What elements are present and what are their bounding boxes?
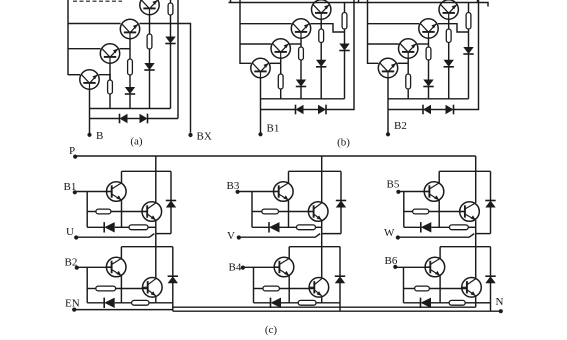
transistor driver (B2 lower leg U) — [106, 257, 126, 277]
svg-text:(c): (c) — [265, 324, 278, 336]
wire — [439, 247, 441, 259]
wire — [439, 170, 490, 172]
wire — [148, 118, 179, 120]
svg-text:B6: B6 — [385, 255, 398, 267]
resistor (B2) R4 — [466, 13, 471, 30]
wire — [475, 171, 477, 203]
transistor Q4 (a) — [140, 0, 159, 15]
wire — [429, 211, 465, 213]
wire — [340, 171, 342, 200]
wire — [155, 171, 157, 203]
transistor output (B4 lower leg V) — [309, 278, 329, 298]
resistor (a) R4 — [168, 3, 173, 15]
terminal B1 — [258, 132, 262, 136]
wire — [431, 109, 446, 111]
svg-text:B: B — [96, 130, 103, 142]
wire — [155, 296, 157, 303]
wire — [128, 118, 140, 120]
transistor Q3 (B2) — [419, 19, 438, 38]
transistor Q1 (a) — [80, 70, 99, 89]
top remnant wire — [73, 0, 122, 2]
wire — [368, 0, 379, 63]
wire — [68, 74, 80, 76]
wire — [121, 171, 123, 183]
diode (B1) D4 — [296, 105, 304, 115]
wire — [398, 234, 474, 238]
wire — [170, 207, 172, 234]
wire — [122, 170, 172, 172]
wire — [476, 302, 491, 304]
wire — [326, 0, 354, 110]
wire — [340, 207, 342, 234]
wire — [439, 276, 441, 303]
wire — [87, 288, 96, 290]
wire — [156, 302, 173, 304]
wire — [320, 43, 322, 61]
terminal W — [396, 235, 400, 239]
wire — [431, 302, 449, 304]
svg-text:U: U — [66, 226, 74, 238]
svg-text:B2: B2 — [65, 257, 78, 269]
wire — [239, 234, 320, 238]
transistor Q3 (B1) — [291, 19, 310, 38]
node rail EN-N upper — [173, 306, 476, 308]
wire — [129, 94, 131, 109]
terminal B2 — [386, 132, 390, 136]
wire — [476, 233, 491, 235]
wire — [172, 283, 174, 312]
wire — [281, 302, 298, 304]
wire — [120, 48, 131, 50]
wire — [149, 15, 151, 34]
wire — [149, 49, 151, 63]
wire — [465, 302, 476, 304]
darlington block (b) collector rail — [229, 3, 489, 7]
svg-text:(a): (a) — [130, 136, 143, 148]
terminal BX — [188, 133, 192, 137]
wire — [67, 0, 69, 75]
wire — [170, 171, 172, 200]
resistor (B1 upper leg U) base — [96, 209, 111, 214]
terminal V — [237, 235, 241, 239]
svg-text:(b): (b) — [337, 137, 350, 149]
wire — [77, 266, 112, 268]
wire — [468, 29, 470, 48]
wire — [475, 303, 477, 307]
wire — [251, 192, 253, 228]
terminal P — [73, 155, 77, 159]
wire — [116, 288, 148, 290]
diode (a) D4 — [120, 114, 128, 124]
wire — [428, 87, 430, 99]
wire — [90, 108, 171, 110]
wire — [149, 302, 156, 304]
wire — [155, 156, 157, 171]
wire — [121, 200, 123, 227]
wire — [87, 226, 104, 228]
wire — [358, 0, 360, 3]
diode (a) D1 — [125, 87, 135, 94]
terminal B3 — [236, 190, 240, 194]
wire — [149, 70, 151, 109]
wire — [322, 302, 340, 304]
terminal B4 — [241, 266, 245, 270]
terminal B5 — [396, 190, 400, 194]
diode (a) D2 — [144, 63, 154, 70]
wire — [288, 200, 290, 227]
diode (B2) D1 — [423, 80, 433, 87]
resistor (B3 upper leg V) emitter — [297, 225, 316, 230]
diode (B4 lower leg V) freewheel — [335, 276, 345, 283]
wire — [121, 246, 172, 248]
wire — [428, 38, 430, 47]
wire — [388, 109, 423, 111]
wire — [115, 226, 129, 228]
wire — [403, 267, 405, 303]
resistor (B5 upper leg W) emitter — [449, 225, 468, 230]
wire — [253, 267, 255, 303]
resistor (B1) R4 — [342, 13, 347, 30]
wire — [68, 48, 101, 50]
wire — [111, 211, 147, 213]
resistor (B4 lower leg V) emitter — [298, 300, 316, 305]
transistor output (B3 upper leg V) — [308, 202, 328, 222]
svg-text:B2: B2 — [394, 120, 407, 132]
wire — [90, 118, 120, 120]
wire — [75, 191, 112, 193]
transistor Q2 (B1) — [271, 39, 290, 58]
diode (B2) D3 — [463, 47, 473, 54]
transistor output (B1 upper leg U) — [142, 202, 162, 222]
wire — [320, 19, 322, 29]
resistor (B2 lower leg U) emitter — [132, 300, 149, 305]
wire — [322, 233, 341, 235]
wire — [321, 220, 323, 234]
wire — [475, 156, 477, 171]
svg-text:W: W — [384, 227, 395, 239]
svg-text:P: P — [69, 145, 75, 157]
wire — [86, 192, 88, 228]
svg-text:N: N — [496, 296, 504, 308]
wire — [109, 63, 111, 80]
wire — [300, 38, 302, 47]
diode (B1) D1 — [296, 80, 306, 87]
wire — [87, 302, 104, 304]
wire — [120, 276, 122, 303]
wire — [304, 109, 319, 111]
wire — [300, 60, 302, 80]
wire — [448, 43, 450, 61]
wire — [339, 283, 341, 312]
wire — [129, 39, 131, 59]
diode (B2) D4 — [423, 105, 431, 115]
resistor (a) R2 — [128, 59, 133, 75]
wire — [288, 276, 290, 303]
wire — [120, 247, 122, 259]
wire — [344, 51, 346, 99]
terminal EN — [74, 309, 173, 311]
transistor Q4 (B1) — [312, 0, 331, 19]
diode (B5 upper leg W) base-emitter — [421, 222, 432, 232]
wire — [289, 170, 342, 172]
resistor (a) R1 — [108, 80, 113, 94]
wire — [177, 0, 179, 119]
wire — [407, 89, 409, 99]
wire — [129, 75, 131, 87]
wire — [404, 211, 413, 213]
svg-text:V: V — [227, 230, 235, 242]
transistor output (B5 upper leg W) — [460, 202, 480, 222]
diode (a) D5 — [140, 114, 148, 124]
wire — [448, 67, 450, 99]
wire — [279, 288, 314, 290]
resistor (B6 lower leg W) emitter — [449, 300, 465, 305]
transistor Q2 (a) — [100, 44, 119, 63]
diode (B5 upper leg W) freewheel — [485, 201, 495, 208]
wire — [170, 15, 172, 37]
wire — [339, 247, 341, 277]
wire — [404, 226, 421, 228]
transistor driver (B1 upper leg U) — [107, 182, 127, 202]
wire — [172, 247, 174, 277]
wire — [321, 247, 323, 279]
wire — [404, 288, 415, 290]
wire — [438, 171, 440, 183]
diode (B6 lower leg W) freewheel — [485, 276, 495, 283]
wire — [252, 211, 262, 213]
wire — [468, 54, 470, 99]
wire — [395, 266, 430, 268]
diode (B6 lower leg W) base-emitter — [421, 298, 432, 308]
resistor (B3 upper leg V) base — [262, 209, 279, 214]
diode (a) D3 — [165, 37, 175, 44]
resistor (B4 lower leg V) base — [263, 286, 280, 291]
transistor Q3 (a) — [120, 19, 139, 38]
wire — [290, 43, 301, 45]
wire — [320, 67, 322, 99]
wire — [321, 234, 323, 247]
wire — [87, 211, 96, 213]
resistor (B2) R3 — [446, 29, 451, 43]
wire — [288, 171, 290, 183]
wire — [468, 226, 475, 228]
diode (B3 upper leg V) base-emitter — [269, 222, 280, 232]
wire — [468, 3, 470, 13]
wire — [260, 78, 262, 134]
terminal U — [74, 235, 78, 239]
wire — [155, 220, 157, 234]
wire — [240, 23, 292, 25]
wire — [155, 247, 157, 279]
wire — [404, 302, 421, 304]
svg-text:B5: B5 — [387, 179, 400, 191]
diode (B1) D5 — [318, 105, 326, 115]
wire — [407, 58, 409, 74]
diode (B1 upper leg U) freewheel — [166, 201, 176, 208]
wire — [300, 87, 302, 99]
wire — [289, 246, 340, 248]
transistor Q4 (B2) — [439, 0, 458, 19]
wire — [76, 234, 154, 238]
wire — [156, 233, 171, 235]
wire — [321, 296, 323, 303]
wire — [243, 266, 280, 268]
resistor (B1) R3 — [319, 29, 324, 43]
wire — [321, 156, 323, 171]
svg-text:B4: B4 — [229, 262, 242, 274]
wire — [280, 89, 282, 99]
transistor driver (B5 upper leg W) — [424, 182, 444, 202]
svg-text:B1: B1 — [267, 123, 280, 135]
diode (B2) D5 — [446, 105, 454, 115]
diode (B1) D2 — [316, 60, 326, 67]
wire — [477, 0, 479, 3]
diode (B2 lower leg U) freewheel — [168, 276, 178, 283]
wire — [316, 302, 322, 304]
diode (B4 lower leg V) base-emitter — [271, 298, 282, 308]
wire — [490, 207, 492, 234]
resistor (B2 lower leg U) base — [96, 286, 116, 291]
terminal B — [87, 133, 91, 137]
wire — [475, 234, 477, 247]
terminal N — [499, 309, 503, 313]
wire — [238, 191, 279, 193]
transistor driver (B6 lower leg W) — [425, 257, 445, 277]
transistor driver (B4 lower leg V) — [274, 257, 294, 277]
wire — [448, 19, 450, 29]
wire — [475, 296, 477, 303]
wire — [321, 171, 323, 203]
transistor output (B6 lower leg W) — [462, 278, 482, 298]
wire — [279, 211, 314, 213]
diode (B2) D2 — [444, 60, 454, 67]
wire — [431, 226, 449, 228]
transistor Q1 (B1) — [251, 58, 270, 77]
wire — [99, 75, 110, 80]
terminal B2 (c) — [75, 266, 79, 270]
wire — [438, 200, 440, 227]
wire — [86, 267, 88, 303]
wire — [490, 283, 492, 312]
terminal B1 (c) — [73, 190, 77, 194]
wire — [454, 0, 479, 110]
resistor (B2) R2 — [426, 47, 431, 60]
wire — [230, 0, 232, 3]
wire — [261, 98, 345, 100]
wire — [155, 234, 157, 247]
wire — [344, 29, 346, 44]
resistor (B6 lower leg W) base — [415, 286, 430, 291]
diode (B3 upper leg V) freewheel — [336, 201, 346, 208]
svg-text:B1: B1 — [64, 181, 77, 193]
wire — [398, 62, 409, 64]
transistor Q2 (B2) — [399, 39, 418, 58]
wire — [429, 288, 467, 290]
wire — [68, 23, 121, 25]
wire — [368, 23, 420, 25]
wire — [139, 24, 190, 133]
transistor driver (B3 upper leg V) — [274, 182, 294, 202]
svg-text:BX: BX — [197, 131, 212, 143]
svg-text:EN: EN — [65, 298, 80, 310]
wire — [170, 0, 172, 3]
resistor (B2) R1 — [406, 74, 411, 89]
resistor (B1 upper leg U) emitter — [129, 225, 148, 230]
wire — [387, 78, 389, 134]
wire — [148, 226, 156, 228]
resistor (B1) R1 — [278, 74, 283, 89]
wire — [252, 226, 269, 228]
wire — [490, 247, 492, 277]
wire — [280, 226, 297, 228]
wire — [109, 94, 111, 109]
transistor Q1 (B2) — [378, 58, 397, 77]
diode (B2 lower leg U) base-emitter — [104, 298, 115, 308]
wire — [398, 191, 429, 193]
transistor output (B2 lower leg U) — [143, 278, 163, 298]
wire — [240, 0, 251, 63]
wire — [490, 171, 492, 200]
node P rail — [75, 155, 476, 157]
wire — [475, 247, 477, 279]
resistor (a) R3 — [147, 34, 152, 49]
wire — [316, 226, 322, 228]
diode (B1 upper leg U) base-emitter — [104, 222, 115, 232]
wire — [254, 302, 271, 304]
wire — [440, 246, 490, 248]
wire — [115, 302, 132, 304]
wire — [344, 3, 346, 13]
wire — [310, 24, 344, 32]
wire — [254, 288, 263, 290]
wire — [438, 24, 469, 32]
wire — [288, 247, 290, 259]
wire — [89, 89, 91, 134]
wire — [428, 60, 430, 80]
svg-text:B3: B3 — [227, 180, 240, 192]
node N rail — [173, 310, 501, 312]
wire — [270, 62, 281, 64]
wire — [418, 43, 429, 45]
wire — [280, 58, 282, 74]
wire — [170, 44, 172, 109]
wire — [475, 220, 477, 234]
resistor (B5 upper leg W) base — [413, 209, 429, 214]
resistor (B1) R2 — [299, 47, 304, 60]
terminal B6 — [393, 265, 397, 269]
wire — [368, 43, 399, 45]
wire — [261, 109, 296, 111]
diode (B1) D3 — [339, 44, 349, 51]
wire — [240, 43, 271, 45]
wire — [403, 192, 405, 228]
wire — [388, 98, 469, 100]
